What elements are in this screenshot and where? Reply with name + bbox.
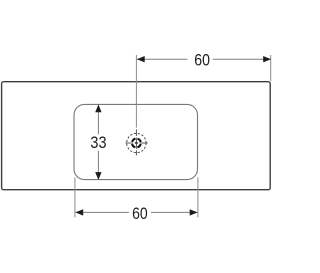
vertical 33 dimension line upper segment bbox=[97, 105, 99, 134]
tap hole vertical centreline segments bbox=[135, 129, 137, 136]
bottom dimension left extension line bbox=[74, 177, 76, 217]
tap hole bold ring (four arcs) bbox=[132, 139, 141, 148]
33 dimension bottom arrow bbox=[95, 172, 101, 180]
tap hole centre dot bbox=[135, 142, 137, 144]
bottom dimension right extension line bbox=[197, 177, 199, 217]
top dimension right arrow bbox=[263, 56, 271, 62]
extension line at right edge for top dimension bbox=[270, 55, 272, 81]
bottom dimension left arrow bbox=[75, 209, 83, 215]
bottom dimension right arrow bbox=[190, 209, 198, 215]
svg-text:33: 33 bbox=[90, 134, 106, 152]
vertical 33 dimension line lower segment bbox=[97, 151, 99, 180]
extension line from tap centre up to top dimension bbox=[135, 55, 137, 128]
svg-text:60: 60 bbox=[132, 205, 148, 223]
countertop outer rectangle bbox=[2, 82, 271, 190]
tap hole dashed circle bbox=[127, 133, 146, 152]
bottom dimension line right segment bbox=[151, 211, 197, 213]
basin bowl rounded rectangle bbox=[74, 104, 198, 179]
bottom dimension line left segment bbox=[76, 211, 129, 213]
33 dimension top arrow bbox=[95, 105, 101, 113]
svg-text:60: 60 bbox=[194, 51, 210, 69]
top dimension line left segment bbox=[137, 58, 188, 60]
tap hole horizontal centreline segments bbox=[125, 142, 133, 144]
top dimension left arrow bbox=[137, 56, 145, 62]
top dimension line right segment bbox=[213, 58, 271, 60]
